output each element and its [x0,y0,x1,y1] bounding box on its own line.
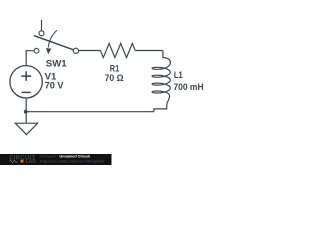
wire bottom return from node to L1 [26,111,154,113]
svg-text:R1: R1 [110,63,120,73]
resistor R1 [100,43,135,57]
wire from SW1 common to R1 [79,50,101,52]
ground stub [25,112,27,124]
logo squiggle [9,160,17,163]
SW1 actuation arc [48,30,57,47]
SW1 left terminal circle [34,48,39,53]
wire from V1 top to switch left terminal [26,51,34,66]
svg-text:http://circuitlab.com/c6u7l9mq: http://circuitlab.com/c6u7l9mqyk60/ [40,159,105,163]
watermark bar [0,154,112,165]
V1 plus sign [21,71,31,81]
svg-text:SW1: SW1 [46,59,67,69]
ground triangle [15,123,37,134]
node junction dot [24,110,28,114]
wire from V1 bottom to ground node [25,98,27,112]
svg-text:michael7 / Unnamed Circuit: michael7 / Unnamed Circuit [40,154,91,158]
SW1 arrowhead [46,48,51,54]
svg-text:LAB: LAB [26,159,37,165]
svg-text:700 mH: 700 mH [173,82,203,92]
wire from R1 to L1 [135,50,163,52]
SW1 common terminal circle [73,48,78,53]
SW1 lever [34,36,74,50]
switch SW1 [34,20,79,55]
svg-text:70 V: 70 V [45,81,64,91]
SW1 top throw stub [41,20,43,31]
V1 circle [10,66,42,98]
voltage source V1 [10,66,42,98]
SW1 top throw terminal circle [39,31,44,36]
logo orange square [21,160,24,163]
svg-text:70 Ω: 70 Ω [105,73,124,83]
ground [15,112,37,135]
V1 minus sign [22,91,31,93]
svg-text:L1: L1 [174,70,183,80]
inductor L1 [152,51,170,112]
